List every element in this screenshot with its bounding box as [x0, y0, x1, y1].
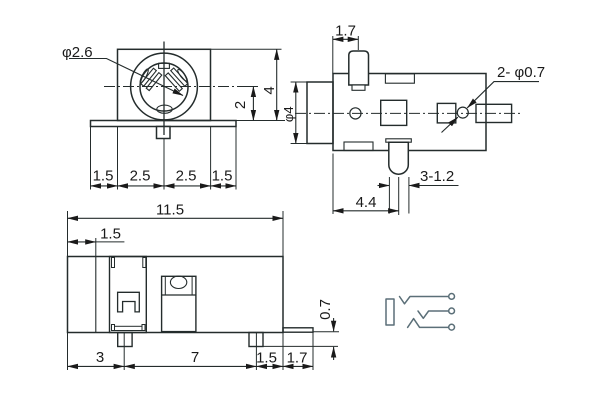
svg-text:0.7: 0.7: [317, 299, 334, 320]
middle square: [381, 100, 407, 125]
vertical centerline front: [163, 42, 165, 136]
svg-text:2- φ0.7: 2- φ0.7: [497, 64, 545, 81]
right contact bars: [165, 68, 188, 91]
switch ticks: [112, 258, 115, 268]
center bottom pin F3: [157, 127, 171, 139]
inner circle: [140, 63, 188, 111]
ring contact: [418, 311, 449, 318]
top pin base: [352, 85, 365, 90]
svg-text:3: 3: [96, 349, 104, 366]
top flat rect: [385, 74, 414, 83]
component 2 walls: [164, 276, 166, 295]
left lens: [139, 68, 150, 84]
outer circle: [131, 53, 198, 120]
pin 1: [118, 333, 132, 347]
bottom dome ellipse: [157, 105, 172, 113]
component 2 divider: [162, 294, 196, 296]
dim 1.5tl extension: [95, 238, 97, 257]
sleeve contact: [408, 319, 449, 328]
bottom pin: [389, 142, 409, 174]
svg-text:1.7: 1.7: [335, 23, 356, 40]
sleeve terminal: [449, 324, 455, 330]
dim 3-1.2 arrows: [378, 185, 390, 187]
dim 1.7 line: [333, 38, 359, 40]
top pin S3: [349, 51, 369, 85]
component 2 ellipse: [170, 276, 186, 288]
component 2 outer: [162, 276, 196, 331]
body F1: [118, 49, 211, 120]
svg-text:2: 2: [232, 101, 249, 109]
side centerline: [295, 112, 520, 114]
dim 4 line: [276, 49, 278, 120]
left contact bars: [141, 68, 162, 90]
dim 2 line: [252, 87, 254, 121]
svg-text:φ4: φ4: [281, 106, 296, 122]
right lug: [476, 104, 512, 122]
left hole circle: [350, 108, 361, 119]
tip terminal: [449, 294, 455, 300]
dim phi4 extensions: [291, 81, 307, 83]
right tab: [283, 328, 313, 332]
leader 2-phi0.7: [467, 82, 539, 108]
bottom small rect: [344, 142, 373, 151]
switch outer: [110, 257, 147, 333]
dim 2 extension line: [237, 86, 258, 88]
top key rect: [159, 63, 170, 68]
dim 11.5 extensions: [67, 211, 69, 257]
pin 2: [249, 333, 263, 347]
dim phi4 line: [295, 82, 297, 144]
horizontal centerline front: [104, 86, 237, 88]
svg-text:1.5: 1.5: [100, 226, 121, 243]
svg-text:3-1.2: 3-1.2: [420, 168, 454, 185]
svg-text:1.5: 1.5: [212, 168, 233, 185]
dim 4 extension lines: [211, 48, 282, 50]
dim phi2.6 leader: [69, 59, 183, 96]
3-1.2 extensions: [388, 177, 390, 214]
svg-text:1.5: 1.5: [93, 168, 114, 185]
bottom chain extensions: [67, 333, 69, 370]
bottom chain dim lines: [68, 365, 125, 367]
interior line: [95, 257, 97, 333]
svg-text:4: 4: [261, 86, 278, 94]
front chain dim lines: [91, 185, 118, 187]
svg-text:1.5: 1.5: [256, 350, 277, 367]
tip contact: [400, 297, 449, 304]
dim 0.7 extensions: [313, 331, 339, 333]
body B1: [68, 257, 284, 333]
svg-text:7: 7: [191, 349, 199, 366]
dim 1.7 extensions: [332, 36, 334, 74]
svg-text:11.5: 11.5: [156, 202, 184, 219]
switch bracket: [118, 292, 140, 312]
right square: [437, 103, 456, 123]
dim 1.5tl line: [68, 241, 96, 243]
svg-text:φ2.6: φ2.6: [62, 44, 93, 61]
right lens: [176, 68, 188, 82]
dim 4.4 line: [333, 210, 399, 212]
svg-text:2.5: 2.5: [176, 168, 197, 185]
ring terminal: [449, 308, 455, 314]
body S2: [333, 74, 486, 151]
dim 4.4 extensions: [332, 154, 334, 215]
bushing S1: [307, 82, 333, 144]
svg-text:1.7: 1.7: [287, 350, 308, 367]
dim 0.7 arrows: [333, 318, 335, 331]
svg-text:4.4: 4.4: [356, 194, 377, 211]
svg-text:2.5: 2.5: [130, 168, 151, 185]
plug rect: [386, 299, 394, 325]
right hole circle: [457, 107, 468, 118]
switch bottom bar: [115, 326, 143, 330]
dim 11.5 line: [68, 217, 284, 219]
front chain extension lines: [90, 127, 92, 190]
bottom pin plate: [386, 139, 412, 142]
flange F2: [91, 121, 237, 127]
